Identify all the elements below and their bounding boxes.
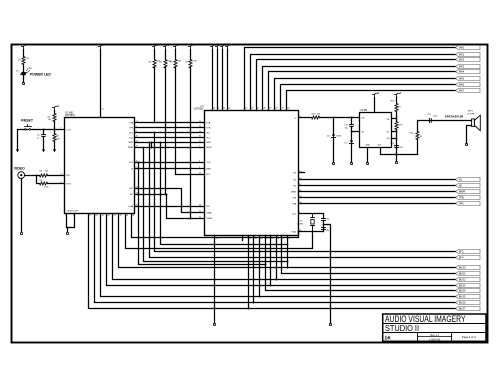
node — [396, 118, 398, 120]
wire N1 — [299, 179, 456, 181]
ground — [395, 161, 397, 163]
resistor R3 47K — [54, 130, 56, 134]
svg-text:1.76M: 1.76M — [297, 224, 303, 226]
wire — [54, 142, 56, 150]
wire speaker return — [467, 126, 472, 144]
crystal Y1 1.76MHz — [312, 214, 314, 218]
node — [351, 117, 353, 119]
resistor R8 10K — [175, 50, 177, 60]
wire pullup3 to U1 pin — [176, 68, 205, 175]
wire — [431, 120, 472, 122]
svg-text:TPA: TPA — [129, 122, 134, 125]
power +5V symbol — [100, 47, 102, 50]
svg-text:BUS2: BUS2 — [459, 278, 466, 282]
wire MWR jog — [151, 143, 153, 148]
wire MA6 — [281, 85, 456, 111]
svg-text:47K: 47K — [56, 139, 60, 141]
node — [36, 175, 38, 177]
svg-text:MA1: MA1 — [459, 53, 465, 57]
wire U2-U1 — [135, 132, 205, 134]
svg-text:N1: N1 — [459, 178, 463, 182]
svg-text:MWR: MWR — [291, 191, 297, 193]
wire TPA — [299, 203, 456, 205]
node — [160, 142, 162, 144]
svg-text:XTAL: XTAL — [291, 230, 297, 233]
wire — [48, 175, 65, 177]
wire — [23, 50, 25, 57]
svg-text:MWR: MWR — [206, 147, 212, 149]
node — [298, 231, 300, 233]
svg-text:CLR: CLR — [206, 162, 211, 164]
node BUS2 tag — [456, 277, 481, 281]
power +5V symbol — [217, 47, 219, 50]
node — [143, 147, 145, 149]
svg-text:GND: GND — [365, 145, 370, 147]
wire U3 out — [381, 148, 418, 155]
node: resistor junction — [54, 129, 56, 131]
node BUS4 tag — [456, 288, 481, 292]
wire BUS1 — [282, 236, 456, 274]
svg-text:BUS7: BUS7 — [459, 307, 466, 311]
node — [166, 194, 168, 196]
wire — [351, 127, 353, 141]
power +5V symbol — [396, 95, 398, 98]
wire MA5 — [275, 79, 456, 111]
power +5V symbol — [154, 47, 156, 50]
wire BUS3 — [107, 214, 456, 286]
svg-text:8 OHM: 8 OHM — [468, 113, 475, 115]
svg-text:TPA: TPA — [292, 202, 297, 205]
svg-text:DMAI: DMAI — [206, 212, 212, 215]
svg-text:MWR: MWR — [459, 190, 466, 194]
svg-text:CLR: CLR — [129, 162, 134, 164]
resistor R1 220 — [22, 57, 25, 65]
diode D2 — [333, 118, 335, 135]
svg-text:Rev 1.1: Rev 1.1 — [430, 334, 439, 337]
svg-text:MA3: MA3 — [459, 65, 465, 69]
capacitor C15 — [323, 214, 325, 219]
capacitor C22 100uF — [429, 119, 431, 123]
svg-text:10uF: 10uF — [398, 147, 403, 149]
node — [149, 142, 151, 144]
node — [396, 131, 398, 133]
wire Q audio net — [299, 117, 312, 119]
svg-text:VIDEO: VIDEO — [14, 167, 25, 171]
ground (U1) — [213, 323, 215, 325]
node: cap junction — [43, 129, 45, 131]
node MA0 tag — [456, 45, 481, 49]
svg-text:MRD: MRD — [206, 142, 211, 144]
svg-text:-IN: -IN — [361, 132, 364, 134]
svg-text:N0: N0 — [459, 184, 463, 188]
node MWR tag — [456, 189, 481, 193]
wire BUS6 — [95, 214, 456, 303]
wire MA0 — [245, 48, 456, 111]
svg-text:47K: 47K — [317, 113, 321, 115]
power +5V symbol — [212, 47, 214, 50]
wire — [17, 130, 19, 150]
node — [138, 162, 140, 164]
wire — [37, 176, 40, 184]
node — [253, 302, 255, 304]
svg-text:BUS5: BUS5 — [459, 295, 466, 299]
svg-text:1-NOV-93: 1-NOV-93 — [429, 338, 441, 341]
wire MA2 — [257, 60, 456, 111]
diode D3 — [350, 141, 354, 144]
svg-text:POWER LED: POWER LED — [30, 72, 52, 76]
svg-text:MA5: MA5 — [459, 77, 465, 81]
ground — [16, 150, 19, 153]
svg-text:RED: RED — [28, 68, 33, 70]
svg-text:1M: 1M — [48, 119, 51, 121]
node — [270, 285, 272, 287]
svg-text:CLR: CLR — [66, 129, 71, 131]
wire pullup2 — [165, 68, 167, 195]
power +5V symbol — [222, 47, 224, 50]
svg-text:MA7: MA7 — [459, 89, 465, 93]
wire EF3 — [155, 133, 456, 252]
wire — [396, 112, 398, 122]
ground (U2) — [66, 232, 68, 234]
resistor R4 — [40, 174, 48, 177]
capacitor C23 10uF — [395, 145, 399, 147]
node MA4 tag — [456, 69, 481, 73]
wire — [323, 229, 325, 232]
wire jack shield — [21, 179, 23, 232]
node MA5 tag — [456, 76, 481, 80]
wire U1 pin drop — [276, 236, 278, 280]
node — [312, 231, 314, 233]
svg-text:TPB: TPB — [459, 196, 464, 200]
wire BUS2 — [113, 214, 456, 280]
svg-text:MA4: MA4 — [459, 70, 465, 74]
node — [154, 122, 156, 124]
svg-text:DMAO: DMAO — [206, 217, 213, 220]
svg-text:U3 386: U3 386 — [360, 110, 368, 112]
power +5V symbol — [165, 47, 167, 50]
wire U2-U1 — [135, 137, 205, 139]
svg-text:CLK: CLK — [292, 213, 297, 215]
node — [259, 296, 261, 298]
node — [248, 308, 250, 310]
node MA6 tag — [456, 82, 481, 86]
RCA jack J1 — [18, 172, 25, 179]
node MA1 tag — [456, 52, 481, 56]
wire U1 pin drop — [248, 236, 250, 309]
wire N0 — [299, 185, 456, 187]
svg-text:BUS3: BUS3 — [459, 284, 466, 288]
node BUS6 tag — [456, 300, 481, 304]
wire MA3 — [263, 67, 456, 111]
wire — [396, 147, 398, 162]
wire xtal — [299, 231, 324, 233]
svg-text:BUS6: BUS6 — [459, 301, 466, 305]
wire BUS4 — [266, 236, 456, 291]
node — [396, 154, 398, 156]
ground (speaker) — [465, 143, 467, 145]
pushbutton SW1 — [25, 129, 27, 131]
node — [190, 218, 192, 220]
op-amp/IC U2 CDP1861 body — [65, 118, 135, 214]
ground (LED) — [22, 82, 24, 84]
wire MRD link — [161, 143, 288, 245]
wire U2-U1 — [135, 206, 205, 208]
wire BUS0 — [119, 214, 456, 268]
svg-text:DMA: DMA — [129, 205, 134, 208]
node — [154, 132, 156, 134]
wire — [352, 131, 360, 133]
svg-text:STUDIO II: STUDIO II — [385, 323, 419, 333]
svg-text:U2 1861: U2 1861 — [65, 112, 74, 114]
svg-text:VIDEO DISP: VIDEO DISP — [67, 210, 80, 212]
capacitor C2 — [43, 130, 45, 135]
wire DMA link — [144, 148, 288, 262]
wire — [392, 131, 397, 133]
power +5V symbol — [374, 95, 376, 98]
svg-text:10K: 10K — [193, 61, 197, 63]
wire BUS7 — [89, 214, 456, 309]
wire — [227, 50, 229, 111]
node — [276, 279, 278, 281]
power +5V symbol — [54, 108, 56, 111]
wire U2-U1 — [135, 168, 205, 170]
ground — [350, 162, 352, 164]
node — [396, 138, 398, 140]
wire MA4 — [269, 72, 456, 111]
svg-text:CDP1802: CDP1802 — [194, 109, 205, 111]
ground — [53, 150, 56, 153]
wire — [333, 138, 335, 163]
node BUS3 tag — [456, 283, 481, 287]
wire U2-U1 — [135, 162, 205, 164]
wire — [418, 121, 430, 132]
wire U2-U1 — [135, 122, 205, 124]
svg-text:TPB: TPB — [206, 127, 211, 129]
node BUS0 tag — [456, 265, 481, 269]
wire — [396, 130, 398, 146]
svg-text:VID: VID — [66, 175, 70, 177]
svg-text:OUT: OUT — [377, 145, 382, 147]
wire U3 vs tap — [392, 118, 397, 120]
wire video — [25, 175, 40, 177]
resistor R7 10K — [165, 50, 167, 60]
wire INT jog — [135, 195, 205, 219]
wire EF4 — [150, 143, 456, 258]
ground — [332, 162, 334, 164]
svg-text:+IN: +IN — [361, 118, 365, 120]
wire — [392, 138, 397, 140]
capacitor C21 — [351, 118, 353, 125]
svg-text:BUS4: BUS4 — [459, 289, 466, 293]
node — [323, 224, 325, 226]
wire U2-U1 — [135, 127, 205, 129]
node BUS1 tag — [456, 271, 481, 275]
node trig tap — [351, 131, 353, 133]
svg-text:MA6: MA6 — [459, 83, 465, 87]
wire U2 ground pins — [67, 214, 75, 228]
speaker SPK1 — [472, 119, 475, 127]
svg-text:WAIT: WAIT — [206, 167, 212, 170]
resistor R24 — [416, 132, 419, 140]
svg-text:SPEAKER 8R: SPEAKER 8R — [445, 114, 464, 118]
svg-text:MWR: MWR — [128, 147, 134, 149]
resistor R5 — [40, 182, 48, 185]
wire SC link — [139, 163, 266, 265]
wire MA1 — [251, 55, 456, 111]
resistor R6 10K — [154, 50, 156, 60]
svg-text:Page 1 of 4: Page 1 of 4 — [462, 335, 476, 339]
svg-text:10K: 10K — [178, 61, 182, 63]
wire pullup1 — [154, 68, 156, 123]
resistor R22 4.7K — [395, 122, 398, 130]
node TPA tag — [456, 201, 481, 205]
wire TPB — [299, 197, 456, 199]
IC U1 CDP1802 body — [205, 111, 299, 236]
svg-text:SPK1: SPK1 — [468, 111, 474, 113]
wire pin7 stub — [242, 236, 244, 241]
wire — [222, 50, 224, 111]
svg-text:BUS1: BUS1 — [459, 272, 466, 276]
title block — [383, 314, 487, 342]
wire — [374, 98, 376, 113]
node MA7 tag — [456, 88, 481, 92]
node MA3 tag — [456, 64, 481, 68]
wire XTAL to U2 — [126, 214, 313, 249]
node TPB tag — [456, 195, 481, 199]
svg-text:MA0: MA0 — [459, 46, 465, 50]
node — [287, 267, 289, 269]
wire — [323, 221, 325, 228]
wire to ground rail — [324, 225, 331, 324]
resistor R2 1M — [54, 111, 56, 114]
svg-text:MA2: MA2 — [459, 58, 465, 62]
svg-text:TPB: TPB — [129, 127, 134, 129]
wire — [320, 117, 360, 119]
node — [265, 264, 267, 266]
node — [333, 117, 335, 119]
power +5V symbol — [23, 47, 25, 50]
node — [287, 261, 289, 263]
wire U1 pin drop — [287, 236, 289, 268]
power +5V symbol — [175, 47, 177, 50]
svg-text:1N34: 1N34 — [336, 136, 342, 138]
ground — [42, 150, 45, 153]
wire U2-U1 — [135, 147, 205, 149]
wire — [217, 50, 219, 111]
resistor R20 4.7K — [312, 116, 320, 119]
power +5V symbol — [190, 47, 192, 50]
svg-text:1.5K: 1.5K — [44, 187, 49, 189]
svg-text:TPB: TPB — [292, 197, 297, 199]
svg-text:CDP1861: CDP1861 — [65, 115, 76, 117]
wire U3 gnd pin — [367, 148, 369, 163]
node MA2 tag — [456, 57, 481, 61]
wire reset net — [18, 129, 65, 131]
ground (xtal) — [329, 323, 331, 325]
wire — [23, 65, 25, 72]
svg-text:SYN: SYN — [66, 184, 71, 186]
power +5V symbol — [227, 47, 229, 50]
node BUS7 tag — [456, 306, 481, 310]
node BUS5 tag — [456, 294, 481, 298]
svg-text:TPA: TPA — [459, 202, 464, 206]
svg-text:TPA: TPA — [206, 122, 211, 125]
node EF4 tag — [456, 255, 481, 259]
wire output rise — [417, 140, 419, 155]
wire — [43, 137, 45, 150]
wire — [54, 122, 56, 130]
svg-text:EF4: EF4 — [459, 256, 464, 260]
svg-text:EF3: EF3 — [459, 250, 464, 254]
wire clock — [299, 213, 324, 215]
node N1 tag — [456, 177, 481, 181]
resistor R21 1K — [396, 98, 398, 104]
wire U1 pin drop — [259, 236, 261, 297]
wire — [351, 144, 353, 163]
wire — [48, 183, 65, 185]
resistor R9 10K — [190, 50, 192, 60]
svg-text:4.7K: 4.7K — [398, 124, 403, 126]
wire CLK to U2 — [132, 214, 299, 238]
IC U3 LM386 body — [360, 113, 392, 148]
wire pullup4 — [190, 68, 192, 219]
wire U1 pin drop — [253, 236, 255, 303]
wire BUS5 — [101, 214, 456, 297]
border frame — [12, 45, 488, 343]
LED D1 POWER LED — [21, 72, 26, 76]
node — [151, 142, 153, 144]
ground (video) — [20, 232, 22, 234]
svg-text:DR: DR — [385, 336, 391, 341]
node — [151, 147, 153, 149]
svg-text:RESET: RESET — [21, 118, 34, 122]
wire — [212, 50, 214, 111]
node N0 tag — [456, 183, 481, 187]
svg-text:BUS0: BUS0 — [459, 266, 466, 270]
ground — [366, 162, 368, 164]
wire EF1 jog — [135, 189, 205, 213]
node — [287, 244, 289, 246]
wire N2 stub — [299, 172, 305, 174]
capacitor C16 — [322, 227, 326, 229]
node EF3 tag — [456, 249, 481, 253]
wire U1 vss — [214, 236, 216, 324]
wire MWR — [299, 191, 456, 193]
wire MA7 — [287, 91, 456, 111]
wire U2-U1 — [135, 142, 205, 144]
svg-text:MRD: MRD — [128, 142, 133, 144]
wire — [23, 76, 25, 83]
wire U1 pin drop — [270, 236, 272, 286]
